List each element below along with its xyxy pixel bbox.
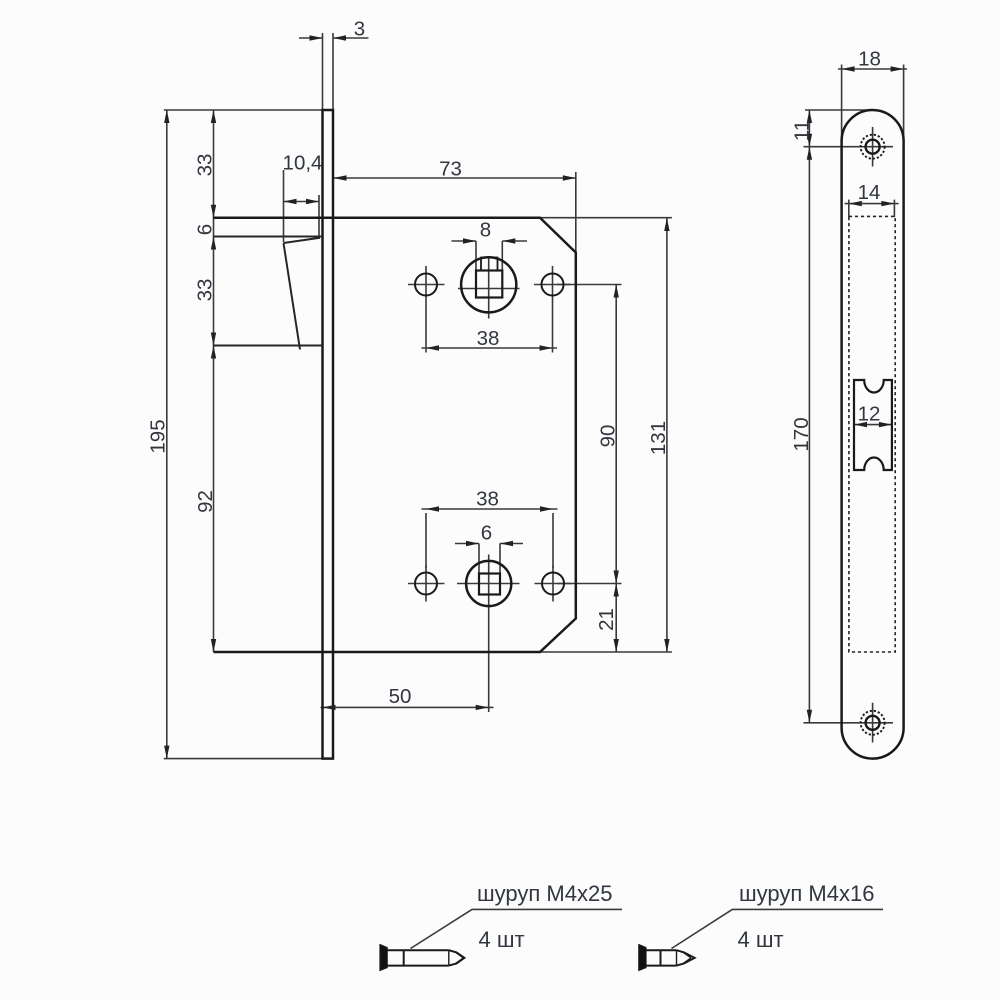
svg-text:33: 33 [194,279,217,302]
svg-text:38: 38 [477,327,500,350]
svg-text:3: 3 [354,18,365,41]
svg-text:73: 73 [439,158,462,181]
svg-text:170: 170 [790,417,813,451]
svg-text:33: 33 [194,154,217,177]
svg-text:6: 6 [481,522,492,545]
svg-text:4 шт: 4 шт [479,927,525,952]
svg-text:11: 11 [791,120,814,141]
svg-text:12: 12 [858,403,881,426]
svg-text:38: 38 [476,488,499,511]
svg-text:шуруп М4х16: шуруп М4х16 [739,881,874,906]
svg-text:195: 195 [147,419,170,453]
svg-text:14: 14 [858,181,881,204]
svg-text:131: 131 [647,421,670,455]
svg-text:8: 8 [480,219,491,242]
svg-text:шуруп М4х25: шуруп М4х25 [477,881,612,906]
svg-text:50: 50 [389,685,412,708]
svg-text:18: 18 [858,48,881,71]
svg-text:90: 90 [597,425,620,448]
svg-text:10,4: 10,4 [283,152,323,175]
svg-text:6: 6 [194,224,217,235]
svg-text:92: 92 [194,490,217,513]
svg-text:21: 21 [595,608,618,631]
svg-text:4 шт: 4 шт [738,927,784,952]
